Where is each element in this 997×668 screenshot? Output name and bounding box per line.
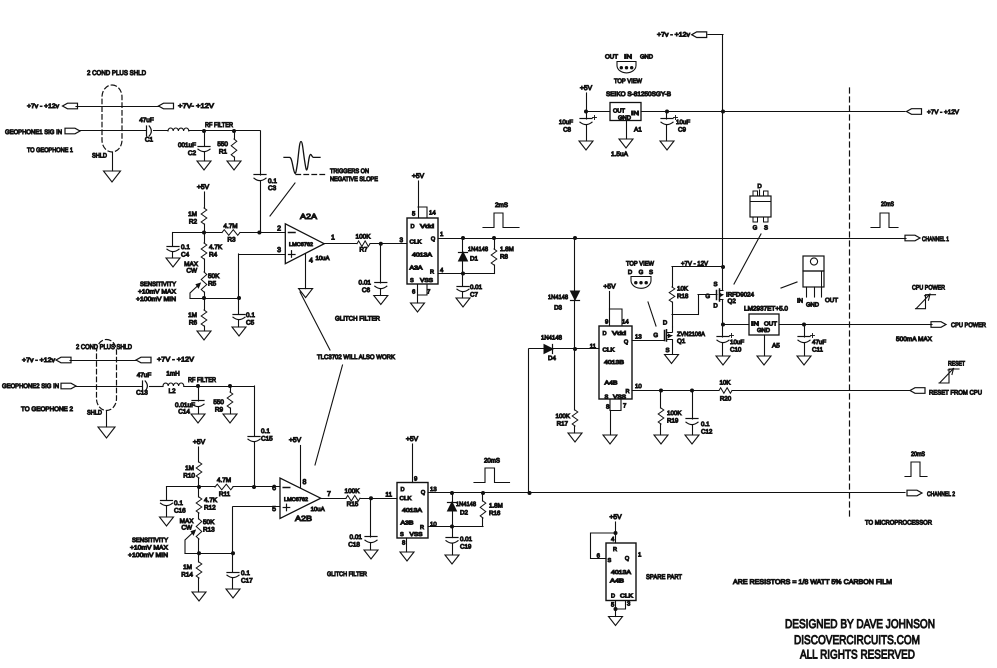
svg-text:C12: C12 [701, 429, 713, 436]
svg-text:1N4148: 1N4148 [541, 335, 563, 342]
svg-text:4: 4 [309, 258, 313, 265]
svg-text:A2B: A2B [295, 514, 312, 523]
svg-text:TOP VIEW: TOP VIEW [626, 261, 655, 268]
svg-text:GND: GND [806, 302, 820, 309]
svg-text:3: 3 [277, 247, 281, 254]
svg-text:D: D [611, 594, 615, 600]
svg-text:+7v - +12v: +7v - +12v [657, 32, 691, 39]
svg-text:R1: R1 [219, 149, 228, 156]
svg-text:Q: Q [624, 340, 629, 346]
svg-text:GLITCH FILTER: GLITCH FILTER [327, 571, 367, 578]
svg-text:R4: R4 [209, 252, 218, 259]
svg-text:ALL RIGHTS RESERVED: ALL RIGHTS RESERVED [800, 648, 915, 662]
svg-text:C2: C2 [188, 150, 197, 157]
svg-text:10uA: 10uA [311, 506, 325, 513]
svg-text:+10mV MAX: +10mV MAX [130, 545, 168, 552]
svg-text:OUT: OUT [825, 297, 838, 304]
svg-text:VSS: VSS [420, 278, 433, 284]
svg-text:4.7K: 4.7K [209, 244, 223, 251]
svg-text:L2: L2 [168, 388, 176, 395]
svg-text:0.01: 0.01 [470, 284, 483, 291]
svg-text:+5V: +5V [289, 437, 302, 444]
svg-text:1N4148: 1N4148 [548, 294, 569, 301]
svg-text:+7v - +12v: +7v - +12v [27, 103, 60, 110]
svg-text:R5: R5 [208, 281, 217, 288]
svg-text:C18: C18 [348, 542, 360, 549]
svg-text:S: S [605, 395, 609, 401]
svg-text:LMC6762: LMC6762 [289, 242, 313, 248]
svg-text:IN: IN [797, 298, 803, 305]
svg-text:CW: CW [186, 268, 198, 275]
svg-text:100K: 100K [345, 488, 361, 495]
svg-text:CPU POWER: CPU POWER [951, 322, 986, 329]
svg-text:D: D [411, 224, 415, 230]
svg-text:RF FILTER: RF FILTER [205, 122, 233, 129]
svg-text:G: G [753, 225, 758, 232]
svg-text:13: 13 [635, 334, 642, 341]
svg-text:Q2: Q2 [728, 298, 737, 305]
svg-text:CLK: CLK [410, 240, 422, 246]
svg-text:10uF: 10uF [559, 119, 573, 126]
svg-text:C11: C11 [812, 347, 823, 354]
svg-text:8: 8 [303, 479, 307, 486]
svg-text:R14: R14 [181, 572, 193, 579]
svg-text:+10mV MAX: +10mV MAX [138, 289, 176, 296]
svg-text:A3B: A3B [401, 521, 414, 527]
svg-text:0.1: 0.1 [174, 500, 183, 507]
svg-text:100K: 100K [556, 413, 571, 420]
svg-text:VSS: VSS [613, 395, 626, 401]
svg-text:CLK: CLK [400, 496, 412, 502]
svg-text:R18: R18 [677, 293, 689, 300]
svg-text:OUT: OUT [764, 321, 777, 328]
svg-text:20mS: 20mS [911, 451, 925, 458]
svg-text:3: 3 [399, 237, 403, 244]
svg-text:1mH: 1mH [166, 371, 180, 378]
svg-text:R6: R6 [189, 320, 198, 327]
svg-text:500mA MAX: 500mA MAX [896, 336, 933, 343]
svg-text:550: 550 [217, 141, 228, 148]
svg-text:10uA: 10uA [316, 255, 330, 262]
svg-text:50K: 50K [208, 273, 220, 280]
svg-text:D: D [663, 320, 668, 327]
svg-text:S: S [665, 347, 669, 354]
svg-text:D: D [713, 302, 718, 309]
svg-text:R8: R8 [500, 254, 508, 261]
svg-text:R9: R9 [215, 407, 224, 414]
svg-text:SENSITIVITY: SENSITIVITY [132, 537, 168, 544]
svg-text:4.7K: 4.7K [204, 497, 218, 504]
svg-text:C1: C1 [145, 137, 154, 144]
svg-text:4013A: 4013A [402, 508, 422, 514]
svg-text:1.8M: 1.8M [500, 246, 514, 253]
svg-text:R15: R15 [347, 501, 359, 508]
svg-text:001uF: 001uF [178, 142, 196, 149]
svg-text:GND: GND [757, 327, 770, 334]
svg-text:A4B: A4B [605, 381, 618, 387]
svg-text:S: S [608, 558, 612, 564]
svg-text:IN: IN [631, 111, 639, 117]
svg-text:R20: R20 [720, 396, 732, 403]
svg-text:D: D [628, 269, 633, 276]
svg-text:+5V: +5V [412, 173, 425, 180]
svg-text:D2: D2 [460, 510, 468, 517]
svg-text:R11: R11 [219, 491, 231, 498]
svg-text:550: 550 [213, 399, 224, 406]
svg-text:10: 10 [635, 383, 642, 390]
svg-text:C17: C17 [241, 578, 253, 585]
svg-text:D4: D4 [548, 355, 556, 362]
svg-text:20mS: 20mS [484, 458, 500, 465]
svg-text:14: 14 [429, 210, 436, 217]
svg-text:A5: A5 [772, 343, 780, 350]
svg-text:DISCOVERCIRCUITS.COM: DISCOVERCIRCUITS.COM [794, 633, 920, 647]
svg-text:+5V: +5V [197, 184, 210, 191]
svg-text:CPU POWER: CPU POWER [912, 285, 945, 292]
svg-text:RESET FROM CPU: RESET FROM CPU [929, 390, 982, 397]
svg-text:10uF: 10uF [730, 339, 744, 346]
svg-text:0.1: 0.1 [268, 178, 277, 185]
svg-text:100K: 100K [667, 410, 682, 417]
svg-text:C9: C9 [678, 127, 686, 134]
svg-text:6: 6 [272, 485, 276, 492]
svg-text:R7: R7 [359, 247, 368, 254]
svg-text:C6: C6 [362, 287, 371, 294]
svg-text:1M: 1M [183, 564, 192, 571]
svg-text:4.7M: 4.7M [223, 223, 237, 230]
svg-text:47uF: 47uF [812, 339, 826, 346]
svg-text:1N4148: 1N4148 [468, 246, 489, 253]
svg-text:RESET: RESET [948, 361, 965, 368]
svg-text:S: S [410, 278, 414, 284]
svg-text:NEGATIVE SLOPE: NEGATIVE SLOPE [330, 176, 378, 183]
svg-text:C19: C19 [460, 544, 472, 551]
svg-text:GLITCH FILTER: GLITCH FILTER [335, 316, 380, 323]
svg-text:G: G [653, 332, 658, 339]
svg-text:C10: C10 [730, 347, 742, 354]
svg-text:C15: C15 [261, 436, 273, 443]
svg-text:2: 2 [277, 226, 281, 233]
svg-text:C8: C8 [563, 127, 571, 134]
svg-text:R: R [430, 270, 434, 276]
svg-text:TO GEOPHONE 1: TO GEOPHONE 1 [27, 147, 73, 154]
svg-text:+5V: +5V [603, 284, 616, 291]
svg-text:5: 5 [272, 506, 276, 513]
svg-text:G: G [705, 293, 710, 300]
svg-text:+7V - +12V: +7V - +12V [927, 109, 960, 116]
svg-text:R: R [613, 547, 617, 553]
svg-text:TRIGGERS ON: TRIGGERS ON [330, 168, 369, 175]
svg-text:RF FILTER: RF FILTER [188, 377, 216, 384]
svg-text:TLC3702 WILL ALSO WORK: TLC3702 WILL ALSO WORK [317, 354, 396, 361]
svg-text:+7V - +12V: +7V - +12V [157, 357, 194, 364]
svg-text:CHANNEL 2: CHANNEL 2 [927, 491, 955, 498]
svg-text:C3: C3 [268, 185, 277, 192]
svg-text:S: S [713, 281, 717, 288]
svg-text:11: 11 [385, 492, 392, 499]
svg-text:R16: R16 [489, 510, 501, 517]
svg-text:SHLD: SHLD [87, 410, 102, 417]
svg-text:C7: C7 [470, 292, 478, 299]
svg-text:2 COND PLUS SHLD: 2 COND PLUS SHLD [76, 344, 132, 351]
svg-text:SEIKO S-81250SGY-B: SEIKO S-81250SGY-B [606, 91, 671, 98]
svg-text:Q: Q [421, 490, 426, 496]
svg-text:D1: D1 [470, 256, 478, 263]
svg-text:C4: C4 [181, 252, 190, 259]
svg-text:+100mV MIN: +100mV MIN [136, 296, 176, 303]
svg-text:2 COND PLUS SHLD: 2 COND PLUS SHLD [87, 70, 146, 77]
svg-text:+7V- +12V: +7V- +12V [178, 103, 215, 110]
svg-text:10uF: 10uF [676, 119, 690, 126]
svg-text:CLK: CLK [603, 348, 615, 354]
svg-text:GEOPHONE1 SIG IN: GEOPHONE1 SIG IN [5, 129, 62, 136]
svg-text:+7v - +12v: +7v - +12v [22, 357, 56, 364]
svg-text:0.1: 0.1 [246, 312, 255, 319]
svg-text:+5V: +5V [193, 439, 206, 446]
svg-text:TO MICROPROCESSOR: TO MICROPROCESSOR [865, 520, 932, 527]
svg-text:0.1: 0.1 [241, 570, 250, 577]
svg-text:A2A: A2A [300, 212, 318, 221]
svg-text:R19: R19 [667, 418, 679, 425]
svg-text:DESIGNED BY DAVE JOHNSON: DESIGNED BY DAVE JOHNSON [785, 617, 935, 631]
svg-text:4013A: 4013A [412, 253, 432, 259]
svg-text:OUT: OUT [613, 108, 625, 115]
svg-text:A3A: A3A [410, 266, 423, 272]
svg-text:D: D [401, 487, 405, 493]
svg-text:VSS: VSS [410, 532, 423, 538]
svg-text:R12: R12 [204, 505, 216, 512]
svg-text:1M: 1M [188, 312, 197, 319]
svg-text:0.01: 0.01 [350, 534, 363, 541]
svg-text:Vdd: Vdd [612, 330, 626, 337]
svg-text:47uF: 47uF [137, 372, 152, 379]
svg-text:50K: 50K [203, 519, 215, 526]
svg-text:14: 14 [622, 319, 629, 326]
svg-text:A4B: A4B [610, 579, 624, 585]
svg-text:R3: R3 [227, 237, 236, 244]
svg-text:S: S [400, 532, 404, 538]
svg-text:IN: IN [751, 322, 759, 328]
svg-text:R: R [420, 525, 424, 531]
svg-text:20mS: 20mS [881, 201, 894, 208]
svg-text:10K: 10K [719, 380, 731, 387]
svg-text:0.01: 0.01 [359, 280, 372, 287]
svg-text:C16: C16 [174, 508, 186, 515]
svg-text:1.8M: 1.8M [489, 503, 503, 510]
svg-text:GND: GND [640, 54, 654, 61]
svg-text:Vdd: Vdd [420, 223, 434, 230]
svg-text:TOP VIEW: TOP VIEW [614, 78, 643, 85]
svg-text:S: S [764, 225, 768, 232]
svg-text:Q: Q [625, 556, 630, 562]
svg-text:1N4148: 1N4148 [456, 501, 477, 508]
svg-text:CHANNEL 1: CHANNEL 1 [922, 236, 949, 243]
svg-text:R: R [625, 389, 629, 395]
svg-text:+5V: +5V [580, 85, 593, 92]
svg-text:+5V: +5V [406, 436, 419, 443]
svg-text:LM2937ET+5.0: LM2937ET+5.0 [744, 306, 788, 313]
svg-text:SENSITIVITY: SENSITIVITY [140, 281, 176, 288]
svg-text:0.1: 0.1 [181, 244, 190, 251]
svg-text:IN: IN [624, 54, 632, 61]
svg-text:C5: C5 [246, 320, 255, 327]
svg-text:C13: C13 [136, 390, 148, 397]
svg-text:1: 1 [331, 235, 335, 242]
svg-text:R17: R17 [557, 421, 569, 428]
svg-text:1M: 1M [185, 465, 194, 472]
svg-text:0.1: 0.1 [701, 421, 710, 428]
svg-text:4013A: 4013A [611, 570, 631, 576]
svg-text:TO GEOPHONE 2: TO GEOPHONE 2 [21, 406, 73, 413]
svg-text:LMC6762: LMC6762 [284, 497, 308, 503]
svg-text:Q1: Q1 [677, 338, 686, 345]
svg-text:R13: R13 [203, 527, 215, 534]
svg-text:CLK: CLK [620, 594, 633, 600]
svg-text:0.1: 0.1 [261, 428, 270, 435]
svg-text:R10: R10 [183, 473, 195, 480]
svg-text:1.5uA: 1.5uA [611, 151, 629, 158]
svg-text:4.7M: 4.7M [217, 477, 231, 484]
svg-text:1M: 1M [188, 211, 197, 218]
svg-text:CW: CW [181, 525, 193, 532]
svg-text:2mS: 2mS [495, 202, 508, 209]
svg-text:7: 7 [327, 491, 331, 498]
svg-text:+5V: +5V [609, 514, 622, 521]
svg-text:D: D [757, 183, 762, 190]
svg-text:R2: R2 [189, 219, 198, 226]
svg-text:0.01: 0.01 [460, 536, 473, 543]
svg-text:Q: Q [431, 237, 436, 243]
svg-text:D3: D3 [554, 305, 562, 312]
svg-text:D: D [603, 331, 607, 337]
svg-text:ARE RESISTORS = 1/8 WATT 5%: ARE RESISTORS = 1/8 WATT 5% CARBON FILM [733, 579, 892, 586]
svg-text:47uF: 47uF [139, 117, 154, 124]
svg-text:GEOPHONE2 SIG IN: GEOPHONE2 SIG IN [2, 383, 59, 390]
svg-text:+100mV MIN: +100mV MIN [128, 552, 168, 559]
svg-text:C14: C14 [178, 409, 190, 416]
svg-text:S: S [649, 269, 653, 276]
svg-text:10K: 10K [677, 286, 689, 293]
svg-text:A1: A1 [634, 127, 642, 134]
svg-text:100K: 100K [356, 234, 372, 241]
svg-text:4013B: 4013B [604, 360, 624, 366]
svg-text:SHLD: SHLD [92, 153, 107, 160]
svg-text:SPARE PART: SPARE PART [646, 574, 682, 581]
svg-text:G: G [639, 269, 644, 276]
svg-text:GND: GND [618, 115, 631, 122]
svg-text:OUT: OUT [605, 54, 618, 61]
